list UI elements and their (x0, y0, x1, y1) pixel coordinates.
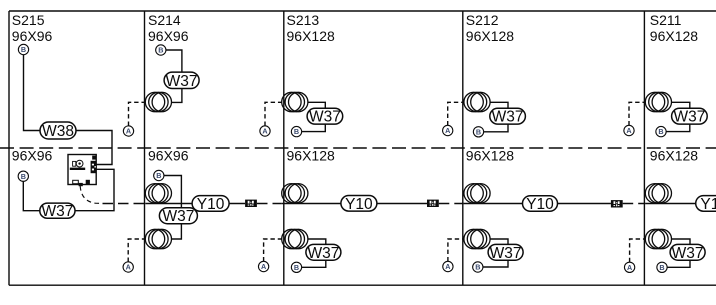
svg-text:96X128: 96X128 (466, 28, 514, 44)
svg-text:A: A (445, 262, 450, 271)
svg-text:A: A (445, 126, 450, 135)
svg-text:B: B (658, 127, 663, 136)
svg-text:B: B (21, 172, 26, 181)
svg-text:96X128: 96X128 (650, 147, 698, 163)
svg-text:W37: W37 (41, 203, 73, 220)
svg-text:B: B (294, 127, 299, 136)
svg-text:96X128: 96X128 (650, 28, 698, 44)
svg-text:Y10: Y10 (345, 196, 373, 213)
svg-text:W37: W37 (673, 109, 705, 126)
svg-text:Y10: Y10 (700, 196, 716, 213)
svg-text:B: B (659, 263, 664, 272)
svg-text:Y10: Y10 (526, 196, 554, 213)
svg-text:B: B (294, 263, 299, 272)
svg-text:96X96: 96X96 (12, 147, 53, 163)
svg-text:96X128: 96X128 (287, 147, 335, 163)
svg-text:A: A (126, 263, 131, 272)
svg-text:W37: W37 (309, 109, 341, 126)
svg-text:S211: S211 (650, 12, 682, 28)
svg-text:W38: W38 (42, 123, 74, 140)
svg-text:W37: W37 (162, 208, 194, 225)
svg-text:S214: S214 (148, 12, 181, 28)
svg-text:S212: S212 (466, 12, 499, 28)
svg-text:B: B (475, 263, 480, 272)
svg-text:S213: S213 (287, 12, 320, 28)
svg-text:B: B (156, 171, 161, 180)
svg-text:B: B (476, 127, 481, 136)
svg-text:Y10: Y10 (197, 196, 225, 213)
svg-text:A: A (261, 262, 266, 271)
svg-text:96X128: 96X128 (287, 28, 335, 44)
svg-text:A: A (262, 127, 267, 136)
svg-text:A: A (627, 263, 632, 272)
svg-text:A: A (626, 126, 631, 135)
svg-text:W37: W37 (307, 245, 339, 262)
svg-text:W37: W37 (492, 109, 524, 126)
svg-text:S215: S215 (12, 12, 45, 28)
svg-text:W37: W37 (166, 73, 198, 90)
svg-text:96X96: 96X96 (148, 28, 189, 44)
svg-text:96X128: 96X128 (466, 147, 514, 163)
svg-text:W37: W37 (672, 245, 704, 262)
svg-text:96X96: 96X96 (12, 28, 53, 44)
svg-text:A: A (126, 127, 131, 136)
svg-text:96X96: 96X96 (148, 147, 189, 163)
svg-text:W37: W37 (490, 245, 522, 262)
svg-text:B: B (21, 45, 26, 54)
svg-text:B: B (158, 46, 163, 55)
